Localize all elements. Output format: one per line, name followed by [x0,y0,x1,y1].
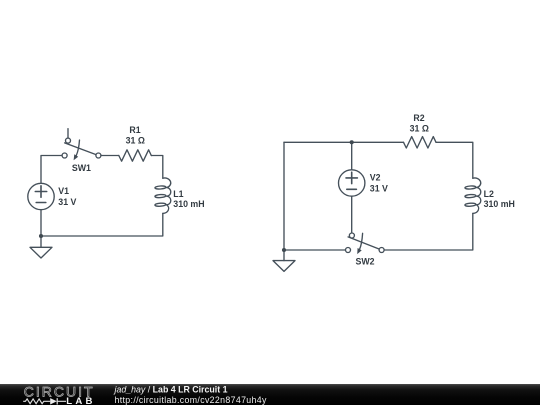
svg-text:31 V: 31 V [370,184,388,194]
svg-text:SW1: SW1 [72,163,91,173]
wire SW1 right to R1 [98,155,118,157]
resistor R1 [119,150,152,161]
node A junction dot [39,234,43,238]
logo resistor zigzag [23,399,50,404]
wire top rail circuit 2 [284,141,404,143]
logo diode [50,398,66,404]
svg-text:31 Ω: 31 Ω [410,124,429,134]
node C junction dot [350,140,354,144]
svg-text:31 V: 31 V [58,197,76,207]
wire node B to ground 2 [283,250,285,261]
voltage source V1 [28,183,54,209]
node B junction dot [282,248,286,252]
svg-text:310 mH: 310 mH [484,199,515,209]
svg-text:jad_hay / Lab 4 LR Circuit 1: jad_hay / Lab 4 LR Circuit 1 [114,384,228,394]
wire left rail circuit 2 [284,142,348,250]
svg-text:SW2: SW2 [355,256,374,266]
voltage source V2 [339,170,365,196]
svg-text:LAB: LAB [66,396,95,405]
svg-text:R1: R1 [129,125,140,135]
wire SW2 right to L2 bottom [382,213,473,250]
wire R1 to L1 top [151,156,163,179]
svg-text:L2: L2 [484,189,494,199]
svg-text:R2: R2 [413,113,424,123]
inductor L1 [155,178,171,213]
resistor R2 [404,137,437,148]
wire R2 to L2 top [436,142,473,178]
switch SW1 [62,129,101,161]
svg-text:V2: V2 [370,173,381,183]
svg-text:L1: L1 [173,189,183,199]
ground 2 [273,261,295,272]
wire V2 bottom to SW2 pivot [351,196,353,233]
ground 1 [30,247,52,258]
wire L1 bottom to node A [41,213,163,236]
svg-text:310 mH: 310 mH [173,199,204,209]
footer bar [0,384,540,405]
wire top rail to V2 [351,142,353,170]
wire V1 top to SW1 left [41,156,65,184]
wire V1 bottom to ground 1 [40,210,42,248]
switch SW2 [346,233,385,254]
svg-text:V1: V1 [58,186,69,196]
svg-text:http://circuitlab.com/cv22n874: http://circuitlab.com/cv22n8747uh4y [115,395,268,405]
inductor L2 [465,178,481,213]
svg-text:31 Ω: 31 Ω [126,136,145,146]
